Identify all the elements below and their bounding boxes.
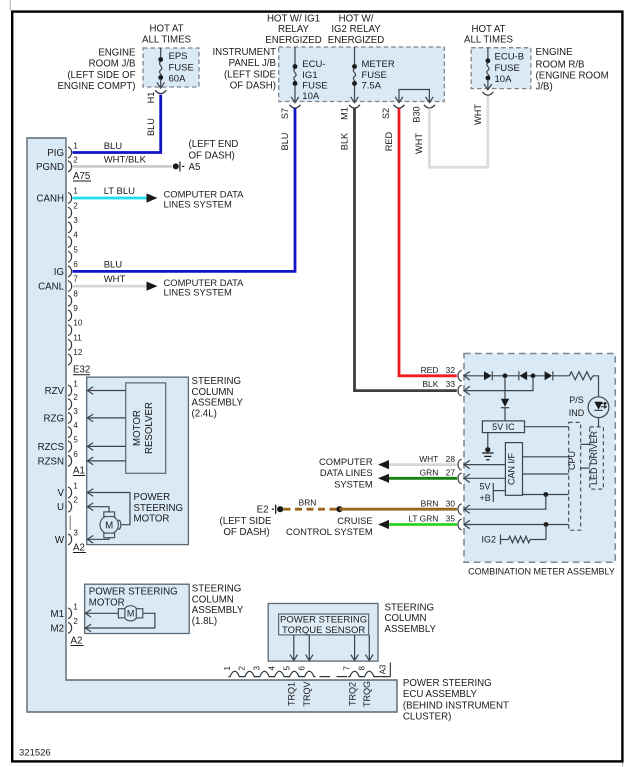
connector A2 pins 1-2 (M1 M2) bbox=[68, 602, 78, 633]
label CRUISE CONTROL SYSTEM bbox=[286, 515, 373, 537]
svg-text:IG: IG bbox=[54, 267, 64, 278]
svg-text:RZV: RZV bbox=[45, 386, 65, 397]
motor M (1.8L) bbox=[118, 606, 142, 621]
diode D2 (points left) bbox=[519, 371, 527, 380]
svg-text:8: 8 bbox=[357, 666, 366, 671]
svg-text:2: 2 bbox=[238, 666, 247, 671]
meter pin 28 bbox=[419, 454, 461, 470]
label ENGINE ROOM J/B bbox=[57, 48, 136, 93]
fuse ECU-B FUSE 10A bbox=[484, 48, 524, 90]
svg-text:METER: METER bbox=[362, 59, 395, 70]
svg-text:12: 12 bbox=[73, 348, 82, 357]
motor M (2.4L) bbox=[100, 512, 121, 538]
wire RED from S2 to meter pin 32 bbox=[384, 108, 457, 376]
svg-text:CAN I/F: CAN I/F bbox=[507, 453, 517, 486]
label POWER STEERING MOTOR (1.8L) bbox=[89, 587, 178, 609]
svg-text:7: 7 bbox=[343, 666, 352, 671]
label ENGINE ROOM R/B bbox=[536, 47, 609, 92]
svg-text:27: 27 bbox=[446, 468, 456, 478]
svg-text:ENGINE: ENGINE bbox=[98, 48, 136, 59]
svg-text:WHT/BLK: WHT/BLK bbox=[104, 155, 147, 166]
svg-text:A5: A5 bbox=[189, 162, 201, 173]
meter pin 30 bbox=[421, 498, 462, 514]
svg-text:P/S: P/S bbox=[569, 395, 584, 405]
svg-text:A2: A2 bbox=[73, 543, 85, 554]
svg-text:M2: M2 bbox=[51, 623, 64, 634]
svg-text:5: 5 bbox=[73, 435, 78, 444]
svg-text:M1: M1 bbox=[340, 107, 350, 120]
connector cup M1 bbox=[349, 105, 360, 108]
svg-text:V: V bbox=[58, 488, 65, 499]
svg-text:ENERGIZED: ENERGIZED bbox=[328, 35, 385, 46]
svg-text:STEERING: STEERING bbox=[192, 584, 242, 595]
svg-text:ENGINE: ENGINE bbox=[536, 47, 574, 58]
wire LT GRN pin 35 bbox=[389, 523, 457, 526]
svg-text:WHT: WHT bbox=[473, 104, 483, 125]
svg-text:33: 33 bbox=[446, 379, 456, 389]
svg-text:B30: B30 bbox=[411, 106, 421, 122]
svg-text:5V: 5V bbox=[480, 482, 491, 492]
wire resolver to RZV pin 1 bbox=[87, 387, 126, 395]
wire D4 to 5V IC bbox=[504, 408, 506, 421]
svg-text:ROOM R/B: ROOM R/B bbox=[536, 59, 585, 70]
LED P/S indicator bbox=[588, 397, 609, 418]
connector cup H1 bbox=[155, 90, 166, 93]
wire D3 to resistor bbox=[553, 375, 570, 377]
svg-text:ECU-B: ECU-B bbox=[495, 52, 525, 63]
fuse EPS FUSE 60A bbox=[157, 48, 194, 88]
svg-text:WHT: WHT bbox=[104, 274, 126, 285]
svg-text:10A: 10A bbox=[495, 74, 513, 85]
meter pin 33 bbox=[422, 379, 461, 396]
svg-text:ECU ASSEMBLY: ECU ASSEMBLY bbox=[403, 689, 478, 700]
svg-text:S7: S7 bbox=[280, 108, 290, 119]
connector cup B30 bbox=[424, 105, 435, 108]
svg-text:IG2 RELAY: IG2 RELAY bbox=[331, 24, 381, 35]
svg-text:RZCS: RZCS bbox=[38, 442, 65, 453]
CAN I/F box bbox=[505, 443, 522, 496]
label INSTRUMENT PANEL J/B bbox=[212, 47, 276, 92]
svg-text:COMPUTER: COMPUTER bbox=[319, 456, 373, 467]
CPU block (dashed) bbox=[567, 422, 580, 530]
svg-text:A75: A75 bbox=[73, 171, 90, 182]
wire resolver to RZSN pin 6 bbox=[87, 457, 126, 465]
svg-text:LINES SYSTEM: LINES SYSTEM bbox=[164, 198, 232, 209]
svg-text:ASSEMBLY: ASSEMBLY bbox=[192, 605, 244, 616]
wire sensor to pin 7 bbox=[351, 635, 359, 661]
wire pin 33 internal up to node 2 bbox=[465, 377, 534, 391]
svg-text:S2: S2 bbox=[381, 108, 391, 119]
wire resolver to RZCS pin 5 bbox=[87, 443, 126, 451]
svg-text:BLU: BLU bbox=[104, 259, 123, 270]
svg-text:ASSEMBLY: ASSEMBLY bbox=[192, 398, 244, 409]
svg-text:1: 1 bbox=[73, 602, 78, 611]
svg-text:PANEL J/B: PANEL J/B bbox=[229, 58, 276, 69]
svg-text:A3: A3 bbox=[378, 664, 387, 674]
svg-text:GRN: GRN bbox=[420, 468, 439, 478]
svg-text:8: 8 bbox=[73, 289, 78, 298]
ground connector E2 bbox=[257, 504, 284, 515]
label HOT W/ IG2 RELAY ENERGIZED bbox=[328, 13, 385, 46]
connector label A3 bbox=[378, 663, 390, 677]
svg-text:A2: A2 bbox=[71, 636, 83, 647]
IG2 feed with resistor R2 bbox=[482, 535, 547, 545]
motor resolver box bbox=[126, 383, 166, 473]
fuse ECU-IG1 FUSE 10A bbox=[291, 47, 327, 103]
wire resistor to LED bbox=[593, 376, 599, 397]
svg-text:4: 4 bbox=[73, 231, 78, 240]
svg-text:(LEFT SIDE OF: (LEFT SIDE OF bbox=[67, 70, 135, 81]
chevron into pin 27 bbox=[464, 474, 470, 482]
svg-text:HOT W/: HOT W/ bbox=[339, 13, 374, 24]
svg-text:ASSEMBLY: ASSEMBLY bbox=[385, 624, 437, 635]
svg-text:BRN: BRN bbox=[421, 498, 439, 508]
svg-text:OF DASH): OF DASH) bbox=[223, 527, 269, 538]
arrow to cruise control system (35) bbox=[378, 520, 389, 529]
svg-text:1: 1 bbox=[73, 142, 78, 151]
wire 5V IC to ground bbox=[487, 433, 489, 450]
svg-text:MOTOR: MOTOR bbox=[89, 597, 125, 608]
svg-text:2: 2 bbox=[73, 155, 78, 164]
svg-text:COLUMN: COLUMN bbox=[192, 387, 234, 398]
arrow to computer data lines (27) bbox=[378, 474, 389, 483]
wire pin 27 to CAN I/F bbox=[465, 477, 506, 479]
chevron into pin 33 bbox=[464, 386, 470, 394]
svg-text:IG1: IG1 bbox=[302, 70, 317, 81]
wire BLK from M1 to meter pin 33 bbox=[340, 108, 457, 390]
wire U to motor bbox=[87, 503, 109, 512]
svg-text:STEERING: STEERING bbox=[385, 602, 435, 613]
svg-text:FUSE: FUSE bbox=[169, 62, 194, 73]
svg-text:1: 1 bbox=[73, 482, 78, 491]
svg-text:6: 6 bbox=[73, 450, 78, 459]
meter pin 35 bbox=[408, 514, 461, 530]
svg-text:TRQG: TRQG bbox=[362, 681, 372, 707]
svg-text:2: 2 bbox=[73, 201, 78, 210]
svg-text:STEERING: STEERING bbox=[192, 376, 242, 387]
connector A5 (left end of dash) bbox=[173, 161, 201, 173]
label HOT AT ALL TIMES (left) bbox=[142, 24, 192, 46]
wire resolver to RZG pin 3 bbox=[87, 414, 126, 422]
steering column assembly (1.8L) box bbox=[85, 584, 190, 633]
svg-text:5V IC: 5V IC bbox=[492, 422, 515, 432]
svg-text:2: 2 bbox=[73, 393, 78, 402]
svg-text:(2.4L): (2.4L) bbox=[192, 408, 217, 419]
svg-text:10: 10 bbox=[73, 319, 82, 328]
svg-text:M: M bbox=[105, 520, 113, 531]
svg-text:2: 2 bbox=[73, 496, 78, 505]
svg-text:(BEHIND INSTRUMENT: (BEHIND INSTRUMENT bbox=[403, 700, 509, 711]
svg-text:LT BLU: LT BLU bbox=[104, 186, 135, 197]
svg-text:(ENGINE ROOM: (ENGINE ROOM bbox=[536, 71, 609, 82]
svg-text:SYSTEM: SYSTEM bbox=[334, 478, 373, 489]
svg-text:BLU: BLU bbox=[104, 141, 123, 152]
svg-text:BLU: BLU bbox=[280, 133, 290, 151]
diode D3 (points right) bbox=[545, 371, 553, 380]
arrow to computer data lines (28) bbox=[378, 460, 389, 469]
label POWER STEERING ECU ASSEMBLY bbox=[403, 678, 509, 723]
dashed break between pins 6 and 7 bbox=[320, 676, 348, 678]
svg-text:COMBINATION METER ASSEMBLY: COMBINATION METER ASSEMBLY bbox=[468, 567, 615, 577]
svg-text:PGND: PGND bbox=[36, 162, 64, 173]
wire BLU from EPS fuse to PIG pin 1 bbox=[73, 95, 161, 153]
power steering torque sensor box bbox=[279, 614, 369, 636]
svg-text:E32: E32 bbox=[73, 365, 90, 376]
svg-text:E2: E2 bbox=[257, 504, 269, 515]
svg-text:(LEFT END: (LEFT END bbox=[189, 139, 239, 150]
connector label A2 bbox=[73, 543, 86, 554]
label P/S IND bbox=[569, 395, 585, 418]
ground bbox=[482, 453, 493, 460]
svg-text:M: M bbox=[127, 609, 135, 619]
svg-text:3: 3 bbox=[73, 407, 78, 416]
connector label A2 (motor 1.8L) bbox=[71, 636, 84, 647]
svg-text:(1.8L): (1.8L) bbox=[192, 616, 217, 627]
junction splice on BRN wire bbox=[336, 506, 342, 512]
wire LED to LED driver bbox=[598, 418, 600, 427]
wire sensor to pin 5 bbox=[290, 635, 298, 661]
svg-text:POWER STEERING: POWER STEERING bbox=[403, 678, 492, 689]
svg-text:J/B): J/B) bbox=[536, 82, 553, 93]
junction dot at ground bbox=[485, 447, 490, 452]
svg-text:TRQ1: TRQ1 bbox=[287, 682, 297, 706]
connector cup at ECU-B exit bbox=[482, 92, 493, 95]
wire GRN pin 27 bbox=[389, 477, 457, 480]
svg-text:321526: 321526 bbox=[19, 748, 51, 759]
connector label A1 bbox=[73, 466, 85, 477]
label STEERING COLUMN ASSEMBLY (1.8L) bbox=[192, 584, 244, 627]
svg-text:(LEFT SIDE: (LEFT SIDE bbox=[219, 516, 272, 527]
diode D1 (pin 32) bbox=[484, 371, 492, 380]
svg-text:HOT AT: HOT AT bbox=[149, 24, 183, 35]
wire CAN I/F to CPU (upper) bbox=[523, 456, 569, 458]
svg-text:RESOLVER: RESOLVER bbox=[144, 402, 155, 454]
svg-text:32: 32 bbox=[446, 365, 456, 375]
svg-text:FUSE: FUSE bbox=[302, 81, 327, 92]
svg-text:28: 28 bbox=[446, 454, 456, 464]
svg-text:INSTRUMENT: INSTRUMENT bbox=[212, 47, 276, 58]
svg-text:6: 6 bbox=[297, 666, 306, 671]
svg-text:TORQUE SENSOR: TORQUE SENSOR bbox=[282, 625, 365, 636]
wire V to motor bbox=[87, 489, 130, 525]
svg-text:11: 11 bbox=[73, 333, 82, 342]
wire D1 to node bbox=[492, 375, 518, 377]
wire sensor to pin 6 bbox=[306, 635, 314, 661]
svg-text:RED: RED bbox=[384, 131, 394, 151]
power label 5V +B bbox=[480, 482, 506, 504]
svg-text:HOT W/ IG1: HOT W/ IG1 bbox=[267, 13, 320, 24]
junction bus S2-B30 inside J/B bbox=[395, 90, 433, 103]
meter pin 27 bbox=[420, 468, 462, 484]
svg-text:CLUSTER): CLUSTER) bbox=[403, 712, 451, 723]
chevron into pin 30 bbox=[464, 505, 470, 513]
label (LEFT END OF DASH) bbox=[189, 139, 239, 162]
svg-text:1: 1 bbox=[73, 187, 78, 196]
svg-text:BLK: BLK bbox=[340, 132, 350, 150]
wire WHT/BLK from PGND to A5 bbox=[73, 155, 172, 167]
svg-text:30: 30 bbox=[446, 498, 456, 508]
svg-text:HOT AT: HOT AT bbox=[471, 24, 505, 35]
wire WHT from B30 to ECU-B fuse bbox=[414, 96, 488, 167]
svg-text:3: 3 bbox=[253, 666, 262, 671]
wire WHT from CANL to computer data lines bbox=[73, 274, 147, 286]
svg-text:MOTOR: MOTOR bbox=[132, 410, 143, 446]
wire sensor to pin 8 bbox=[366, 635, 374, 661]
svg-text:CPU: CPU bbox=[567, 451, 577, 470]
svg-text:WHT: WHT bbox=[419, 454, 438, 464]
combination meter assembly box (dashed) bbox=[464, 354, 615, 563]
svg-text:FUSE: FUSE bbox=[495, 63, 520, 74]
svg-text:2: 2 bbox=[73, 617, 78, 626]
svg-text:WHT: WHT bbox=[414, 133, 424, 154]
wire BRN dashed from E2 bbox=[284, 498, 340, 510]
wire CPU to LED driver (lower) bbox=[581, 467, 590, 469]
arrow to computer data lines system (CANH) bbox=[147, 193, 158, 202]
svg-text:60A: 60A bbox=[169, 73, 187, 84]
wire pin 30 internal bbox=[465, 495, 546, 510]
svg-text:35: 35 bbox=[446, 514, 456, 524]
svg-text:U: U bbox=[57, 502, 64, 513]
svg-text:EPS: EPS bbox=[169, 51, 188, 62]
wire D2 to node 2 bbox=[527, 375, 545, 377]
wire pin 28 to CAN I/F bbox=[465, 464, 506, 466]
svg-text:7: 7 bbox=[73, 275, 78, 284]
connector cup S7 bbox=[290, 105, 301, 108]
steering column assembly (torque sensor) box bbox=[268, 604, 378, 662]
wire CPU to LED driver (upper) bbox=[581, 443, 590, 445]
svg-text:COLUMN: COLUMN bbox=[385, 613, 427, 624]
svg-text:BRN: BRN bbox=[299, 498, 317, 508]
svg-text:1: 1 bbox=[223, 666, 232, 671]
label HOT W/ IG1 RELAY ENERGIZED bbox=[265, 13, 322, 46]
svg-text:LED DRIVER: LED DRIVER bbox=[589, 430, 599, 485]
label HOT AT ALL TIMES (right) bbox=[464, 24, 514, 46]
svg-text:ALL TIMES: ALL TIMES bbox=[464, 35, 514, 46]
LED driver block (dashed) bbox=[589, 427, 603, 489]
svg-text:BLK: BLK bbox=[422, 379, 438, 389]
engine room J/B box (dashed) bbox=[143, 48, 199, 87]
svg-text:CONTROL SYSTEM: CONTROL SYSTEM bbox=[286, 526, 373, 537]
svg-text:ALL TIMES: ALL TIMES bbox=[142, 35, 192, 46]
svg-text:(LEFT SIDE: (LEFT SIDE bbox=[224, 69, 277, 80]
connector cup S2 bbox=[394, 105, 405, 108]
label COMPUTER DATA LINES SYSTEM (CANH) bbox=[164, 189, 245, 210]
svg-text:RZG: RZG bbox=[44, 413, 64, 424]
svg-text:H1: H1 bbox=[146, 92, 156, 104]
wire pin 35 internal to CPU bbox=[465, 524, 569, 526]
power steering ECU assembly body (L-shape) bbox=[27, 138, 397, 712]
svg-text:6: 6 bbox=[73, 260, 78, 269]
svg-text:LT GRN: LT GRN bbox=[408, 514, 438, 524]
svg-text:4: 4 bbox=[73, 421, 78, 430]
svg-text:+B: +B bbox=[480, 493, 491, 503]
junction node 1 (pin 32 line) bbox=[503, 373, 508, 378]
wire node 1 down to zener bbox=[504, 377, 506, 399]
svg-text:COLUMN: COLUMN bbox=[192, 594, 234, 605]
connector A75 pins 1-2 bbox=[68, 142, 78, 172]
svg-text:4: 4 bbox=[268, 666, 277, 671]
svg-text:PIG: PIG bbox=[47, 148, 64, 159]
svg-text:ECU-: ECU- bbox=[302, 59, 325, 70]
svg-text:IND: IND bbox=[569, 408, 585, 418]
svg-text:MOTOR: MOTOR bbox=[134, 514, 170, 525]
instrument panel J/B box (dashed) bbox=[279, 47, 445, 102]
svg-text:3: 3 bbox=[73, 216, 78, 225]
wire M2 to motor bbox=[85, 613, 155, 632]
junction node on pin 35 line bbox=[544, 522, 549, 527]
label COMPUTER DATA LINES SYSTEM (meter) bbox=[319, 456, 373, 490]
wire node to IG2 resistor bbox=[545, 525, 547, 540]
svg-text:RED: RED bbox=[421, 365, 439, 375]
wire LT BLU from CANH to computer data lines bbox=[73, 186, 147, 198]
svg-text:A1: A1 bbox=[73, 466, 85, 477]
wire CAN I/F to CPU (lower) bbox=[523, 473, 569, 475]
wire BLU from S7 to IG pin 6 bbox=[73, 108, 296, 271]
svg-text:TRQ2: TRQ2 bbox=[347, 682, 357, 706]
wire pin 32 internal bbox=[465, 375, 485, 377]
connector label E32 bbox=[73, 365, 90, 376]
5V IC box bbox=[482, 421, 524, 433]
svg-text:OF DASH): OF DASH) bbox=[189, 151, 235, 162]
svg-text:LINES SYSTEM: LINES SYSTEM bbox=[164, 287, 232, 298]
wire BRN solid to pin 30 bbox=[340, 508, 458, 511]
svg-text:CRUISE: CRUISE bbox=[337, 515, 372, 526]
connector A1 pins 1-6 bbox=[68, 380, 78, 467]
svg-text:ENGINE COMPT): ENGINE COMPT) bbox=[57, 81, 135, 92]
label STEERING COLUMN ASSEMBLY (sensor) bbox=[385, 602, 437, 635]
wire M1 to motor bbox=[85, 610, 118, 618]
svg-text:CANL: CANL bbox=[38, 282, 64, 293]
label COMPUTER DATA LINES SYSTEM (CANL) bbox=[164, 277, 245, 298]
wire WHT pin 28 bbox=[389, 463, 457, 466]
wire CAN I/F bottom to CPU bbox=[523, 494, 569, 496]
svg-text:1: 1 bbox=[73, 380, 78, 389]
arrow to computer data lines system (CANL) bbox=[147, 282, 158, 291]
meter pin 32 bbox=[421, 365, 462, 381]
svg-text:DATA LINES: DATA LINES bbox=[320, 467, 373, 478]
svg-text:5: 5 bbox=[282, 666, 291, 671]
svg-text:9: 9 bbox=[73, 304, 78, 313]
label STEERING COLUMN ASSEMBLY (2.4L) bbox=[192, 376, 244, 419]
svg-text:5: 5 bbox=[73, 245, 78, 254]
svg-text:BLU: BLU bbox=[146, 118, 156, 136]
engine room R/B box (dashed) bbox=[471, 48, 531, 89]
chevron into pin 32 bbox=[464, 372, 470, 380]
connector A3 pin bump row (pins 7-8) bbox=[348, 671, 390, 676]
svg-text:CANH: CANH bbox=[37, 194, 64, 205]
svg-text:RZSN: RZSN bbox=[38, 456, 64, 467]
chevron into pin 28 bbox=[464, 460, 470, 468]
label (LEFT SIDE OF DASH) bbox=[219, 516, 272, 538]
resistor R1 (to P/S IND LED) bbox=[569, 372, 593, 380]
wire 5V IC to CPU bbox=[525, 426, 569, 428]
svg-text:3: 3 bbox=[73, 528, 78, 537]
connector A2 pins 1-3 (V U W) bbox=[68, 482, 78, 545]
svg-text:W: W bbox=[55, 535, 65, 546]
svg-text:IG2: IG2 bbox=[482, 535, 497, 545]
steering column assembly (2.4L) box bbox=[87, 377, 189, 544]
wire W to motor bbox=[87, 536, 109, 544]
svg-text:10A: 10A bbox=[302, 91, 320, 102]
diode D4 (points down to 5V IC) bbox=[501, 399, 509, 408]
chevron into pin 35 bbox=[464, 520, 470, 528]
svg-text:ROOM J/B: ROOM J/B bbox=[89, 59, 136, 70]
svg-text:ENERGIZED: ENERGIZED bbox=[265, 35, 322, 46]
junction node 2 (pin 32 line) bbox=[531, 373, 536, 378]
label POWER STEERING MOTOR (2.4L) bbox=[134, 492, 184, 525]
svg-text:M1: M1 bbox=[51, 609, 64, 620]
svg-text:TRQV: TRQV bbox=[302, 681, 312, 706]
